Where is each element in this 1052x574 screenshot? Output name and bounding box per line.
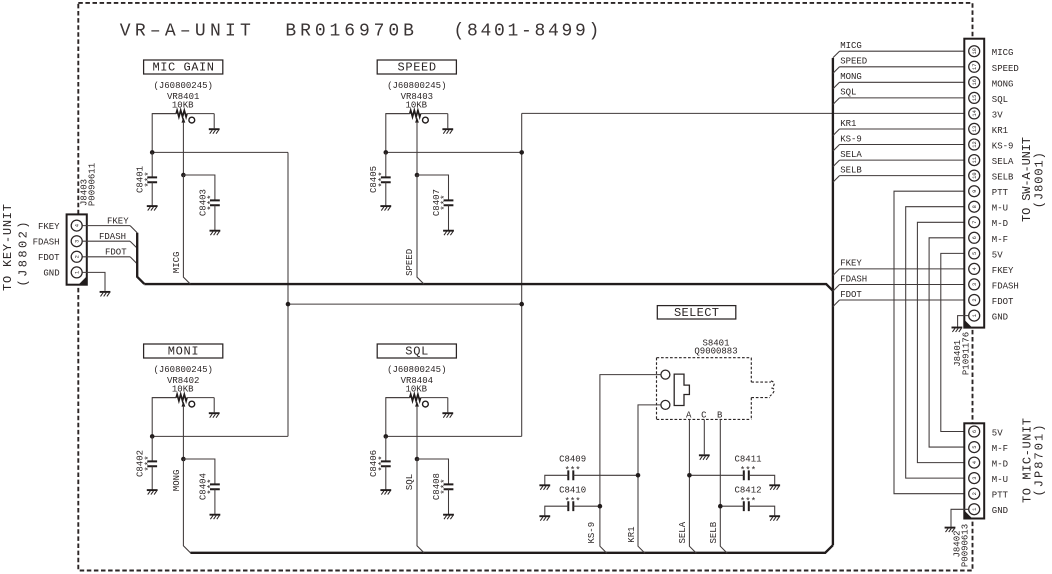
connector J8001 pin 8 (M-U): [969, 201, 980, 212]
svg-text:SQL: SQL: [405, 345, 428, 359]
node junction VR8404 left terminal: [384, 434, 389, 439]
svg-text:2: 2: [75, 255, 81, 258]
wire FKEY entry diagonal into key bus: [130, 226, 137, 233]
capacitor C8406: [381, 461, 391, 466]
svg-text:SELA: SELA: [992, 157, 1014, 167]
wire SELA from switch pin A to bottom bus: [689, 419, 696, 553]
ground at C8401: [147, 205, 158, 207]
capacitor C8406 lead: [385, 436, 387, 461]
wire MONG wiper stem to bottom bus: [183, 459, 190, 553]
node junction C8409: [636, 473, 641, 478]
svg-text:(8401-8499): (8401-8499): [454, 22, 600, 42]
node junction VR8401 left terminal: [150, 150, 155, 155]
supply rail wire from VR8402: [152, 435, 288, 437]
svg-text:1: 1: [972, 314, 978, 317]
wire KS-9 to J8001: [840, 144, 969, 146]
ground at J8001 pin 1: [952, 327, 963, 329]
svg-text:MONG: MONG: [840, 72, 862, 82]
svg-text:C8411: C8411: [735, 455, 762, 465]
capacitor C8407 ground lead: [448, 205, 450, 230]
VR8401 wiper terminal circle: [189, 117, 195, 123]
svg-text:10KB: 10KB: [172, 101, 194, 111]
capacitor C8406 ground lead: [385, 466, 387, 489]
3V vertical rail right: [521, 113, 523, 436]
VR8401 wiper stem wire: [182, 122, 184, 175]
wire MONG to J8001: [840, 81, 969, 83]
potentiometer VR8401 resistor element: [152, 113, 176, 115]
SQL title box: [377, 344, 456, 358]
capacitor C8409: [568, 470, 573, 480]
svg-text:MICG: MICG: [992, 48, 1014, 58]
connector J8001 pin 5 (5V): [969, 248, 980, 259]
svg-text:SQL: SQL: [405, 474, 415, 490]
connector J8402 pin 1 (GND): [969, 504, 980, 515]
svg-text:KR1: KR1: [840, 119, 856, 129]
wire M-F between J8001 and J8402: [929, 238, 969, 447]
ground at C8406: [380, 489, 391, 491]
wire SQL wiper stem to bottom bus: [417, 459, 424, 553]
svg-text:C: C: [701, 410, 707, 420]
svg-text:PTT: PTT: [992, 491, 1009, 501]
svg-text:P0090613: P0090613: [960, 524, 970, 567]
connector J8001 pin 17 (SPEED): [969, 61, 980, 72]
connector J8001 pin 6 (M-F): [969, 232, 980, 243]
svg-text:3: 3: [75, 240, 81, 243]
svg-text:SPEED: SPEED: [840, 57, 867, 67]
capacitor C8402 lead: [151, 436, 153, 461]
wire SPEED exit diagonal from bus: [833, 67, 840, 74]
wire MICG wiper stem to top bus: [183, 175, 190, 284]
svg-text:KS-9: KS-9: [840, 134, 862, 144]
svg-text:SPEED: SPEED: [405, 249, 415, 276]
svg-text:9: 9: [972, 190, 978, 193]
3V cross tie wire: [288, 303, 522, 305]
capacitor C8405 lead: [385, 152, 387, 177]
capacitor C8411: [744, 470, 749, 480]
connector J8001 pin 13 (KR1): [969, 123, 980, 134]
svg-text:GND: GND: [992, 506, 1008, 516]
svg-text:(J8001): (J8001): [1033, 152, 1047, 208]
svg-text:5V: 5V: [992, 250, 1003, 260]
connector J8001 pin 11 (SELA): [969, 155, 980, 166]
VR8401 wiper arrow: [182, 117, 186, 122]
connector J8402 pin 4 (M-D): [969, 457, 980, 468]
VR8404 right terminal to ground wire: [447, 398, 449, 413]
wire FDOT from J8403 pin 2: [82, 256, 130, 258]
potentiometer VR8403 resistor element: [386, 113, 410, 115]
ground at VR8401 right terminal: [209, 128, 220, 130]
svg-text:3: 3: [972, 283, 978, 286]
capacitor C8401: [147, 177, 157, 182]
capacitor C8411 ground lead: [749, 475, 775, 484]
capacitor C8404 ground lead: [214, 489, 216, 514]
connector J8402 pin1 GND corner triangle: [964, 511, 972, 519]
wire switch pin C to ground: [703, 419, 705, 454]
svg-text:M-F: M-F: [992, 235, 1008, 245]
connector J8001 pin 12 (KS-9): [969, 139, 980, 150]
svg-text:C8412: C8412: [735, 486, 762, 496]
ground at C8407: [443, 230, 454, 232]
wire FDASH exit diagonal from bus: [833, 285, 840, 292]
ground at C8405: [380, 205, 391, 207]
VR8404 wiper terminal circle: [423, 401, 429, 407]
ground at J8402 pin 1: [945, 527, 956, 529]
capacitor C8404 lead: [183, 459, 215, 484]
svg-text:C8410: C8410: [559, 486, 586, 496]
svg-text:SQL: SQL: [840, 88, 856, 98]
svg-text:FKEY: FKEY: [840, 259, 862, 269]
svg-text:FDASH: FDASH: [840, 274, 867, 284]
svg-text:GND: GND: [992, 313, 1008, 323]
capacitor C8409 signal lead: [573, 474, 638, 476]
svg-text:10KB: 10KB: [405, 385, 427, 395]
ground at VR8402 right terminal: [209, 412, 220, 414]
svg-text:MONG: MONG: [992, 79, 1014, 89]
ground at C8404: [210, 514, 221, 516]
VR8402 wiper arrow: [182, 401, 186, 406]
wire SPEED to J8001: [840, 66, 969, 68]
connector J8001 pin 15 (SQL): [969, 92, 980, 103]
svg-text:6: 6: [972, 236, 978, 239]
VR8403 left terminal wire: [386, 114, 410, 153]
svg-text:18: 18: [972, 48, 978, 54]
capacitor C8405: [381, 177, 391, 182]
capacitor C8401 lead: [151, 152, 153, 177]
svg-text:MIC GAIN: MIC GAIN: [152, 61, 214, 75]
wire FDOT to J8001: [840, 299, 969, 301]
ground at C8410: [539, 515, 550, 517]
node junction C8412: [718, 504, 723, 509]
capacitor C8412: [744, 501, 749, 511]
svg-text:Q9000883: Q9000883: [694, 346, 737, 356]
svg-text:SELA: SELA: [840, 150, 862, 160]
connector J8001 pin 16 (MONG): [969, 77, 980, 88]
VR8402 wiper stem wire: [182, 406, 184, 459]
svg-text:FDASH: FDASH: [33, 237, 60, 247]
node junction VR8403 left terminal: [384, 150, 389, 155]
connector J8001 pin 10 (SELB): [969, 170, 980, 181]
wire 5V between J8001 and J8402: [941, 253, 969, 431]
svg-text:P0090611: P0090611: [88, 163, 98, 206]
svg-text:MONG: MONG: [172, 470, 182, 492]
wire MICG exit diagonal from bus: [833, 51, 840, 58]
wire SELB from switch pin B to bottom bus: [720, 419, 727, 553]
node junction wiper/C8408: [415, 457, 420, 462]
wire SELA exit diagonal from bus: [833, 160, 840, 167]
wire PTT between J8001 and J8402: [894, 191, 969, 494]
wire FDOT exit diagonal from bus: [833, 300, 840, 307]
capacitor C8408 ground lead: [448, 489, 450, 514]
node junction 3V tie left: [286, 302, 291, 307]
svg-text:SELB: SELB: [709, 521, 719, 543]
svg-text:10: 10: [972, 172, 978, 178]
connector J8403 pin1 GND corner triangle: [78, 276, 86, 285]
switch S8401 common contact KR1: [661, 400, 670, 409]
capacitor C8412 signal lead: [720, 505, 744, 507]
bottom horizontal cable bus: [190, 545, 833, 553]
node junction wiper/C8407: [415, 173, 420, 178]
svg-text:10KB: 10KB: [405, 101, 427, 111]
wire FDASH to J8001: [840, 284, 969, 286]
svg-text:2: 2: [972, 298, 978, 301]
wire M-U between J8001 and J8402: [906, 207, 969, 478]
capacitor C8405 ground lead: [385, 182, 387, 205]
capacitor C8407: [444, 200, 454, 205]
svg-text:13: 13: [972, 126, 978, 132]
right vertical cable bus: [832, 58, 834, 545]
svg-text:SQL: SQL: [992, 95, 1008, 105]
capacitor C8411 signal lead: [689, 474, 743, 476]
3V wire from J8001 pin14: [522, 112, 969, 114]
ground at J8403 pin 1: [100, 291, 111, 293]
capacitor C8409 ground lead: [545, 475, 569, 484]
VR8401 left terminal wire: [152, 114, 176, 153]
svg-text:KS-9: KS-9: [992, 142, 1014, 152]
svg-text:GND: GND: [43, 269, 59, 279]
svg-text:FDASH: FDASH: [992, 281, 1019, 291]
wire M-D between J8001 and J8402: [917, 222, 968, 462]
SELECT title box: [657, 306, 736, 319]
svg-text:16: 16: [972, 79, 978, 85]
connector J8403 pin 1 (GND): [71, 267, 82, 278]
wire KR1 exit diagonal from bus: [833, 129, 840, 136]
svg-text:6: 6: [972, 430, 978, 433]
svg-text:5: 5: [972, 252, 978, 255]
node junction C8410: [598, 504, 603, 509]
connector J8402 pin 2 (PTT): [969, 488, 980, 499]
svg-text:KR1: KR1: [992, 126, 1008, 136]
supply rail wire from VR8403: [386, 151, 522, 153]
connector J8001 pin 9 (PTT): [969, 186, 980, 197]
connector J8403 pin 3 (FDASH): [71, 236, 82, 247]
connector J8403 body: [67, 214, 87, 284]
svg-text:FDOT: FDOT: [992, 297, 1014, 307]
capacitor C8402: [147, 461, 157, 466]
wire SQL exit diagonal from bus: [833, 98, 840, 105]
top horizontal cable bus: [144, 284, 833, 291]
connector J8402 body: [964, 423, 984, 518]
wire KS-9 from switch to bottom bus: [600, 375, 661, 554]
svg-text:5V: 5V: [992, 429, 1003, 439]
potentiometer VR8404 resistor element: [386, 397, 410, 399]
connector J8402 pin 6 (5V): [969, 426, 980, 437]
node junction 3V tie right: [519, 302, 524, 307]
svg-text:FDOT: FDOT: [105, 248, 127, 258]
svg-text:4: 4: [972, 267, 978, 270]
capacitor C8404: [210, 484, 220, 489]
wire MONG exit diagonal from bus: [833, 82, 840, 89]
switch S8401 actuator notch dashes: [751, 381, 774, 398]
connector J8402 pin 3 (M-U): [969, 473, 980, 484]
svg-text:B: B: [717, 410, 723, 420]
connector J8403 pin 4 (FKEY): [71, 220, 82, 231]
capacitor C8408 lead: [417, 459, 449, 484]
svg-text:SELA: SELA: [678, 521, 688, 543]
svg-text:1: 1: [75, 271, 81, 274]
svg-text:10KB: 10KB: [172, 385, 194, 395]
ground at C8402: [147, 489, 158, 491]
ground at C8409: [539, 484, 550, 486]
VR8403 wiper terminal circle: [423, 117, 429, 123]
svg-text:4: 4: [75, 224, 81, 227]
svg-text:(J60800245): (J60800245): [387, 365, 446, 375]
svg-text:M-D: M-D: [992, 460, 1008, 470]
capacitor C8408: [444, 484, 454, 489]
VR8403 wiper arrow: [415, 117, 419, 122]
wire FKEY to J8001: [840, 268, 969, 270]
ground at VR8404 right terminal: [442, 412, 453, 414]
svg-text:17: 17: [972, 64, 978, 70]
connector J8001 pin 4 (FKEY): [969, 263, 980, 274]
switch S8401 dashed outline: [657, 358, 752, 420]
potentiometer VR8402 resistor element: [152, 397, 176, 399]
switch S8401 common contact KS-9: [661, 370, 670, 379]
svg-text:KR1: KR1: [627, 526, 637, 542]
wire FKEY exit diagonal from bus: [833, 269, 840, 276]
capacitor C8401 ground lead: [151, 182, 153, 205]
capacitor C8402 ground lead: [151, 466, 153, 489]
capacitor C8403 lead: [183, 175, 215, 200]
wire GND from J8001 pin 1: [958, 316, 969, 327]
svg-text:MONI: MONI: [168, 345, 199, 359]
SPEED title box: [377, 60, 456, 74]
wire FDOT entry diagonal into key bus: [130, 257, 137, 264]
MIC GAIN title box: [144, 60, 223, 74]
svg-text:PTT: PTT: [992, 188, 1009, 198]
key-side bus (thick): [137, 233, 144, 284]
connector J8403 pin 2 (FDOT): [71, 251, 82, 262]
capacitor C8410 signal lead: [573, 505, 600, 507]
svg-text:FDOT: FDOT: [38, 253, 60, 263]
svg-text:FKEY: FKEY: [992, 266, 1014, 276]
svg-text:1: 1: [972, 508, 978, 511]
svg-text:SELECT: SELECT: [674, 306, 719, 320]
connector J8001 pin 14 (3V): [969, 108, 980, 119]
3V vertical rail left: [287, 152, 289, 436]
supply rail wire from VR8401: [152, 151, 288, 153]
wire MICG to J8001: [840, 50, 969, 52]
ground at C8411: [769, 484, 780, 486]
wire SELA to J8001: [840, 159, 969, 161]
connector J8001 pin1 GND corner triangle: [964, 320, 972, 328]
svg-text:SPEED: SPEED: [398, 61, 437, 75]
svg-text:MICG: MICG: [840, 41, 862, 51]
capacitor C8410 ground lead: [545, 506, 569, 515]
VR8403 wiper stem wire: [416, 122, 418, 175]
wire KR1 to J8001: [840, 128, 969, 130]
ground at C8412: [769, 515, 780, 517]
svg-text:(J60800245): (J60800245): [153, 81, 212, 91]
wire GND from J8403 pin 1: [82, 272, 105, 291]
VR8402 left terminal wire: [152, 398, 176, 437]
svg-text:11: 11: [972, 157, 978, 163]
svg-text:KS-9: KS-9: [587, 522, 597, 544]
svg-text:TO KEY-UNIT: TO KEY-UNIT: [1, 204, 15, 291]
VR8404 wiper stem wire: [416, 406, 418, 459]
ground at VR8403 right terminal: [442, 128, 453, 130]
svg-text:3V: 3V: [992, 110, 1003, 120]
node junction 3V at SPEED rail: [519, 150, 524, 155]
wire FKEY from J8403 pin 4: [82, 225, 130, 227]
connector J8001 pin 18 (MICG): [969, 46, 980, 57]
ground at C8408: [443, 514, 454, 516]
svg-text:M-D: M-D: [992, 219, 1008, 229]
node junction C8411: [687, 473, 692, 478]
svg-text:M-F: M-F: [992, 444, 1008, 454]
svg-text:SPEED: SPEED: [992, 64, 1019, 74]
svg-text:15: 15: [972, 95, 978, 101]
svg-text:FKEY: FKEY: [107, 216, 129, 226]
connector J8001 pin 3 (FDASH): [969, 279, 980, 290]
svg-text:VR–A–UNIT: VR–A–UNIT: [120, 22, 251, 42]
wire FDASH from J8403 pin 3: [82, 240, 130, 242]
VR8404 left terminal wire: [386, 398, 410, 437]
svg-text:FDASH: FDASH: [99, 232, 126, 242]
svg-text:(J8802): (J8802): [17, 222, 31, 287]
svg-text:C8409: C8409: [559, 455, 586, 465]
svg-text:12: 12: [972, 141, 978, 147]
VR8402 wiper terminal circle: [189, 401, 195, 407]
capacitor C8407 lead: [417, 175, 449, 200]
wire FDASH entry diagonal into key bus: [130, 241, 137, 248]
supply rail wire from VR8404: [386, 435, 522, 437]
wire SPEED wiper stem to top bus: [417, 175, 424, 284]
svg-text:M-U: M-U: [992, 204, 1008, 214]
svg-text:FDOT: FDOT: [840, 290, 862, 300]
wire SELB to J8001: [840, 175, 969, 177]
node junction VR8402 left terminal: [150, 434, 155, 439]
svg-text:FKEY: FKEY: [38, 222, 60, 232]
capacitor C8403 ground lead: [214, 205, 216, 230]
wire SQL to J8001: [840, 97, 969, 99]
svg-text:3: 3: [972, 476, 978, 479]
switch S8401 actuator: [674, 374, 689, 405]
ground at switch pin C: [699, 454, 710, 456]
svg-text:4: 4: [972, 461, 978, 464]
svg-text:BR016970B: BR016970B: [285, 22, 414, 42]
svg-text:8: 8: [972, 205, 978, 208]
VR8402 right terminal to ground wire: [213, 398, 215, 413]
ground at C8403: [210, 230, 221, 232]
connector J8001 pin 1 (GND): [969, 310, 980, 321]
svg-text:2: 2: [972, 492, 978, 495]
connector J8402 pin 5 (M-F): [969, 442, 980, 453]
svg-text:P1091176: P1091176: [961, 332, 971, 375]
capacitor C8410: [568, 501, 573, 511]
wire KS-9 exit diagonal from bus: [833, 145, 840, 152]
MONI title box: [144, 344, 223, 358]
svg-text:M-U: M-U: [992, 475, 1008, 485]
svg-text:SELB: SELB: [992, 173, 1014, 183]
connector J8001 body: [964, 39, 984, 328]
capacitor C8412 ground lead: [749, 506, 775, 515]
svg-text:SELB: SELB: [840, 165, 862, 175]
svg-text:7: 7: [972, 221, 978, 224]
node junction wiper/C8404: [181, 457, 186, 462]
wire KR1 from switch to bottom bus: [638, 405, 661, 553]
svg-text:(J60800245): (J60800245): [153, 365, 212, 375]
svg-text:14: 14: [972, 110, 978, 116]
connector J8001 pin 7 (M-D): [969, 217, 980, 228]
VR8403 right terminal to ground wire: [447, 114, 449, 129]
VR8401 right terminal to ground wire: [213, 114, 215, 129]
capacitor C8403: [210, 200, 220, 205]
svg-text:5: 5: [972, 445, 978, 448]
svg-text:MICG: MICG: [172, 252, 182, 274]
connector J8001 pin 2 (FDOT): [969, 295, 980, 306]
node junction wiper/C8403: [181, 173, 186, 178]
wire SELB exit diagonal from bus: [833, 176, 840, 183]
